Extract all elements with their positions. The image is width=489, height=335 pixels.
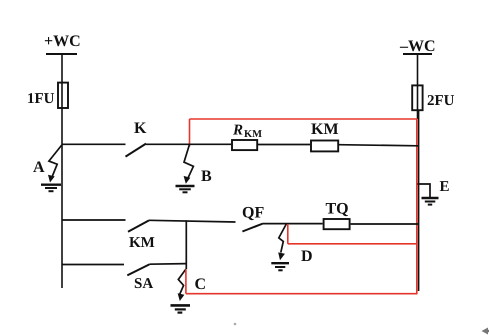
- svg-text:E: E: [440, 179, 450, 195]
- switch contact K: [126, 120, 148, 157]
- svg-text:B: B: [201, 168, 212, 185]
- coil TQ: [324, 201, 350, 230]
- svg-text:2FU: 2FU: [427, 93, 455, 109]
- artifact dot: [234, 323, 237, 326]
- wire red fault path B top: [190, 119, 418, 147]
- fault arrow C: [178, 269, 186, 301]
- ground E: [418, 184, 439, 205]
- svg-text:KM: KM: [244, 129, 262, 140]
- svg-text:A: A: [33, 159, 45, 176]
- wire row1 left segment: [62, 143, 126, 145]
- fault arrow A: [48, 145, 62, 183]
- svg-text:TQ: TQ: [326, 201, 349, 218]
- wire row3 left segment: [62, 264, 124, 266]
- wire row2 right segment: [351, 223, 419, 225]
- fault arrow D: [278, 224, 286, 260]
- switch contact QF: [242, 205, 264, 232]
- node -WC: [399, 38, 436, 55]
- ground A: [41, 185, 61, 192]
- svg-text:SA: SA: [134, 276, 153, 292]
- wire right rail black: [418, 111, 420, 291]
- svg-text:C: C: [195, 276, 207, 293]
- artifact cursor arrow: [482, 328, 489, 335]
- svg-text:1FU: 1FU: [27, 91, 55, 107]
- wire row2 left segment: [62, 219, 126, 221]
- svg-text:R: R: [232, 123, 243, 139]
- wire row1 right segment: [339, 145, 418, 146]
- svg-text:KM: KM: [311, 121, 339, 138]
- wire right rail top: [417, 54, 419, 119]
- fuse 2FU: [412, 85, 454, 110]
- wire row2 middle segment: [149, 220, 236, 222]
- switch contact SA: [127, 264, 153, 292]
- wire row3 right segment: [149, 263, 186, 266]
- svg-text:KM: KM: [129, 235, 155, 251]
- wire junction vertical KM-SA: [185, 220, 187, 269]
- wire row1 between R and KM: [258, 144, 310, 146]
- wire left rail: [61, 54, 63, 288]
- svg-text:D: D: [301, 248, 313, 265]
- switch contact KM: [128, 220, 155, 251]
- wire row1 middle segment: [146, 143, 231, 145]
- resistor RKM: [232, 123, 262, 151]
- svg-text:QF: QF: [242, 205, 264, 222]
- svg-text:–WC: –WC: [399, 38, 436, 55]
- fuse 1FU: [27, 83, 68, 108]
- ground D: [271, 263, 289, 270]
- ground B: [176, 186, 195, 192]
- svg-text:K: K: [134, 120, 147, 137]
- svg-text:+WC: +WC: [44, 33, 81, 50]
- fault arrow B: [184, 145, 194, 184]
- wire right rail red: [416, 119, 418, 294]
- wire row2 QF to TQ: [263, 223, 323, 225]
- node +WC: [44, 33, 81, 54]
- wire red fault path D: [288, 224, 418, 244]
- wire red fault path C bottom: [186, 270, 418, 294]
- coil KM: [311, 121, 339, 151]
- ground C: [171, 305, 191, 312]
